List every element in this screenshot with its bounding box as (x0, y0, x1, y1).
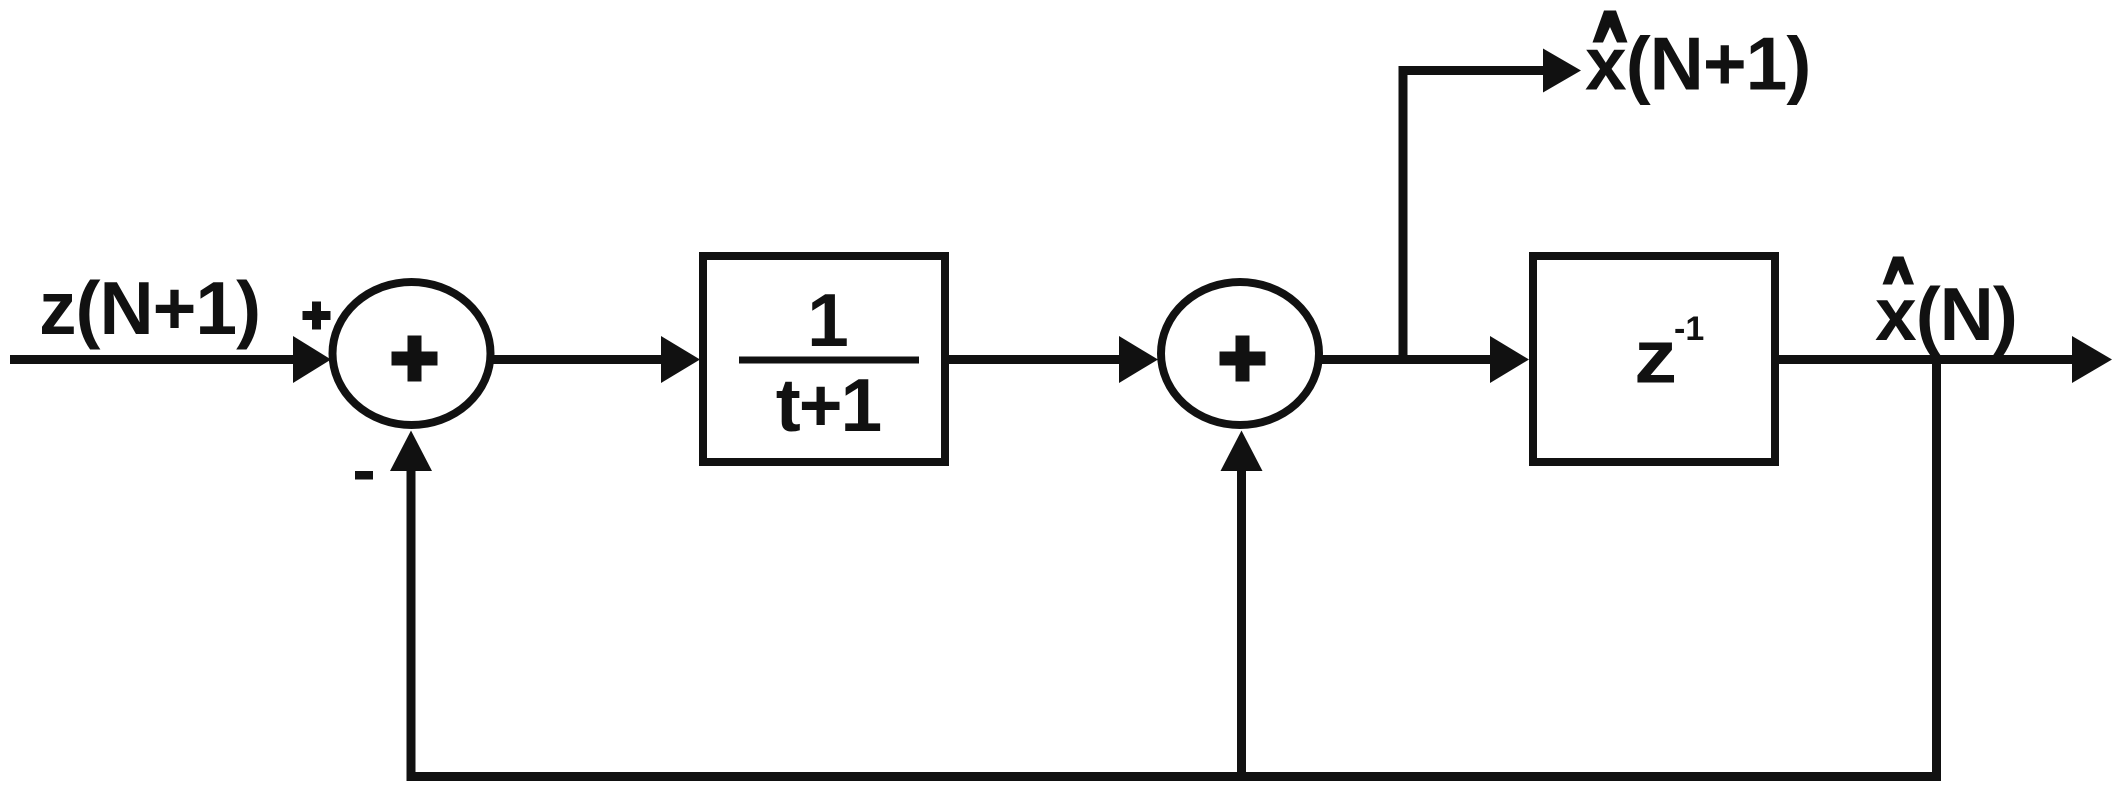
svg-text:t+1: t+1 (776, 363, 881, 447)
summing junction S1 (333, 282, 491, 425)
wire Z to output (1779, 355, 2074, 364)
wire S2 to delay block Z (1318, 355, 1491, 364)
hat over x of x(N) (1883, 257, 1915, 285)
block G gain 1/(t+1) (703, 256, 945, 462)
plus inside S1 (392, 352, 438, 366)
branch wire up from node (1399, 66, 1408, 364)
hat over x of x(N+1) (1593, 11, 1628, 43)
arrowhead into S1 bottom (390, 431, 432, 472)
wire input horizontal (10, 355, 295, 364)
arrowhead into block G (661, 336, 700, 383)
feedback wire left vertical up to S1 (407, 470, 416, 781)
arrowhead into S2 bottom (1221, 431, 1263, 472)
arrowhead into S2 (1119, 336, 1158, 383)
arrowhead to x(N+1) label (1543, 49, 1581, 93)
svg-text:-1: -1 (1674, 310, 1704, 348)
minus sign (feedback polarity) (355, 471, 373, 480)
arrowhead output (2072, 336, 2112, 383)
summing junction S2 (1161, 282, 1319, 425)
arrowhead into Z (1490, 336, 1529, 383)
branch wire top horizontal (1399, 66, 1546, 75)
svg-text:x(N+1): x(N+1) (1585, 22, 1810, 106)
feedback wire bottom horizontal (407, 772, 1942, 781)
svg-text:x(N): x(N) (1875, 272, 2017, 356)
wire G to summing junction S2 (949, 355, 1120, 364)
svg-text:z: z (1634, 316, 1677, 400)
plus sign (input polarity) (303, 311, 331, 320)
feedback wire middle vertical up to S2 (1237, 470, 1246, 781)
arrowhead into summing junction S1 (293, 336, 331, 383)
block Z unit delay (1533, 256, 1775, 462)
feedback wire right vertical down from node (1932, 355, 1941, 781)
wire S1 to block G (490, 355, 663, 364)
svg-text:1: 1 (807, 278, 849, 362)
fraction bar (739, 357, 919, 364)
svg-text:z(N+1): z(N+1) (39, 266, 260, 350)
plus inside S2 (1220, 352, 1266, 366)
